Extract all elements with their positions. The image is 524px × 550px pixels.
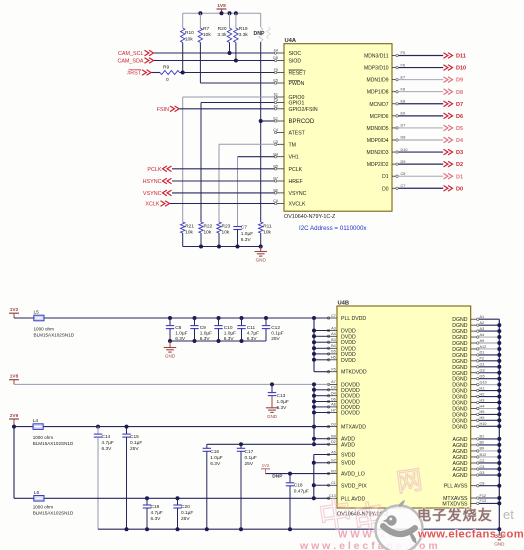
svg-text:4.7µF: 4.7µF xyxy=(102,440,114,446)
svg-text:D6: D6 xyxy=(456,114,463,120)
wire DGND pin A12 to ground bus xyxy=(479,348,499,350)
wire rail2 DOVDD xyxy=(14,383,330,385)
svg-text:B9: B9 xyxy=(480,447,485,451)
svg-text:C1: C1 xyxy=(331,481,336,485)
wire DGND pin A4 to ground bus xyxy=(479,336,499,338)
wire DGND pin H5 to ground bus xyxy=(479,413,499,415)
svg-text:GND: GND xyxy=(165,354,176,359)
svg-text:B3: B3 xyxy=(331,338,336,342)
U4B pin B2 AGND xyxy=(453,441,485,449)
svg-text:B8: B8 xyxy=(331,435,336,439)
svg-text:F5: F5 xyxy=(401,51,405,55)
svg-text:C15: C15 xyxy=(130,434,139,440)
svg-text:SVDD: SVDD xyxy=(341,461,356,467)
wire data bit D8 xyxy=(398,91,443,93)
svg-text:1.0µF: 1.0µF xyxy=(241,231,253,237)
wire data bit D6 xyxy=(398,115,443,117)
watermark pink www rows xyxy=(299,530,438,550)
svg-text:MDP0/D4: MDP0/D4 xyxy=(367,138,389,144)
wire DGND pin H4 to ground bus xyxy=(479,407,499,409)
svg-text:A3: A3 xyxy=(331,326,336,330)
U4B pin B8 AVDD xyxy=(327,435,355,443)
svg-text:2V9: 2V9 xyxy=(10,413,19,419)
svg-text:F5: F5 xyxy=(274,68,278,72)
svg-text:C5: C5 xyxy=(273,140,278,144)
svg-text:4.7µF: 4.7µF xyxy=(247,331,259,337)
resistor R22 10k xyxy=(199,222,213,247)
wire DGND pin H1 to ground bus xyxy=(479,390,499,392)
U4B pin D6 DOVDD xyxy=(327,397,360,405)
svg-text:E5: E5 xyxy=(273,79,278,83)
wire XCLK to XVCLK xyxy=(170,203,275,205)
capacitor C11 4.7µF xyxy=(237,316,259,342)
svg-text:DOVDD: DOVDD xyxy=(341,411,360,417)
svg-text:C8: C8 xyxy=(401,172,406,176)
wire VSYNC xyxy=(172,192,275,194)
svg-text:B1: B1 xyxy=(480,435,485,439)
svg-text:MCN/D7: MCN/D7 xyxy=(369,102,388,108)
junction BPRCOD on DNP column xyxy=(259,119,263,123)
svg-text:C9: C9 xyxy=(200,325,206,331)
svg-text:1V8: 1V8 xyxy=(217,3,226,9)
capacitor C19 4.7uF xyxy=(143,496,163,529)
svg-text:D7: D7 xyxy=(401,124,406,128)
svg-text:4.7µF: 4.7µF xyxy=(151,510,163,516)
svg-text:G5: G5 xyxy=(480,375,485,379)
svg-text:A8: A8 xyxy=(331,403,336,407)
net CAM_SDA label xyxy=(117,58,153,65)
U4B pin F5 MTKDVDD xyxy=(327,368,367,376)
svg-text:D0: D0 xyxy=(456,186,463,192)
svg-text:1000 ohm: 1000 ohm xyxy=(33,505,54,510)
resistor R19 3.3k xyxy=(234,13,249,60)
svg-text:PWDN: PWDN xyxy=(289,81,305,87)
resistor R21 10k xyxy=(181,222,195,247)
U4B pin C9 DOVDD xyxy=(327,386,360,394)
wire AVDD rail to D2 xyxy=(207,443,330,445)
U4B pin H7 DOVDD xyxy=(327,408,360,416)
svg-text:H7: H7 xyxy=(331,408,336,412)
svg-text:GPIO1: GPIO1 xyxy=(289,101,305,107)
svg-text:PLL DVDD: PLL DVDD xyxy=(341,316,366,322)
svg-text:H10: H10 xyxy=(480,422,487,426)
svg-text:AGND: AGND xyxy=(453,473,468,479)
svg-text:B6: B6 xyxy=(273,189,278,193)
svg-text:F4: F4 xyxy=(274,49,278,53)
svg-text:GPIO2/FSIN: GPIO2/FSIN xyxy=(289,107,318,113)
U4B pin A3 DGND xyxy=(452,327,484,335)
watermark text www.elecfans.com xyxy=(417,529,524,541)
U4B pin D4 DOVDD xyxy=(327,392,360,400)
wire DGND pin G1 to ground bus xyxy=(479,366,499,368)
watermark pink outlined chinese characters xyxy=(316,464,424,540)
wire PCLK xyxy=(172,168,275,170)
svg-text:0.1µF: 0.1µF xyxy=(130,440,142,446)
svg-text:A2: A2 xyxy=(480,321,485,325)
svg-text:25V: 25V xyxy=(245,461,254,467)
svg-text:MDP3/D10: MDP3/D10 xyxy=(364,66,389,72)
wire data bit D4 xyxy=(398,139,443,141)
svg-text:B4: B4 xyxy=(331,344,336,348)
capacitor C20 0.1uF xyxy=(173,496,193,529)
ground C13 xyxy=(266,408,278,419)
U4B pin C13 PLL AVDD xyxy=(327,494,365,502)
svg-text:SIOC: SIOC xyxy=(289,51,302,57)
node D9 output connector xyxy=(444,77,464,84)
svg-text:3.3k: 3.3k xyxy=(239,32,249,38)
svg-text:TM: TM xyxy=(289,142,297,148)
U4A pin F5 RESET xyxy=(274,68,307,76)
junction dots bottom ground rail xyxy=(125,527,293,531)
wire DGND pin G5 to ground bus xyxy=(479,378,499,380)
svg-text:GND: GND xyxy=(256,258,267,263)
svg-text:A9: A9 xyxy=(480,339,485,343)
svg-text:C6: C6 xyxy=(273,199,278,203)
svg-text:C11: C11 xyxy=(247,325,256,331)
ferrite bead L4 1000 ohm BLM15AX102SN1D xyxy=(33,418,74,446)
U4A pin C5 TM xyxy=(273,140,296,148)
U4B pin G2 SVDD xyxy=(327,459,355,467)
svg-text:C20: C20 xyxy=(181,504,190,510)
node D0 output connector xyxy=(444,185,464,192)
U4A pin C6 XVCLK xyxy=(273,199,306,207)
svg-text:C13: C13 xyxy=(277,393,286,399)
svg-text:MTXAVDD: MTXAVDD xyxy=(341,425,366,431)
U4B pin D1 DGND xyxy=(452,351,484,359)
wire data bit D3 xyxy=(398,151,443,153)
ground rail1 caps xyxy=(164,341,176,359)
svg-text:C18: C18 xyxy=(294,483,303,489)
wire data bit D10 xyxy=(398,67,443,69)
U4B pin C7 PLL DVDD xyxy=(327,314,366,322)
junction R20 top on rail xyxy=(228,11,232,15)
svg-text:C9: C9 xyxy=(331,386,336,390)
svg-text:C7: C7 xyxy=(331,314,336,318)
wire DGND pin A9 to ground bus xyxy=(479,342,499,344)
U4A pin D5 SIOD xyxy=(273,56,301,64)
junction cap on rail1 gnd xyxy=(168,339,172,343)
svg-text:B5: B5 xyxy=(273,165,278,169)
svg-text:VSYNC: VSYNC xyxy=(289,191,307,197)
U4B pin B12 AGND xyxy=(453,453,487,461)
wire DGND pin F2 to ground bus xyxy=(479,360,499,362)
wire pulldown ground rail top section xyxy=(183,246,261,248)
svg-text:C2: C2 xyxy=(480,459,485,463)
U4A pin F4 SIOC xyxy=(274,49,302,57)
svg-text:0: 0 xyxy=(166,77,169,83)
svg-text:DNP: DNP xyxy=(272,474,283,480)
svg-text:F6: F6 xyxy=(401,63,405,67)
svg-text:D8: D8 xyxy=(456,90,463,96)
svg-text:D3: D3 xyxy=(480,471,485,475)
U4B pin A7 DOVDD xyxy=(327,380,360,388)
wire data bit D0 xyxy=(398,187,443,189)
wire VH1 to C7 column xyxy=(238,157,275,225)
svg-text:R20: R20 xyxy=(218,26,227,32)
svg-text:F13: F13 xyxy=(480,499,487,503)
net #RST label xyxy=(127,69,151,76)
svg-text:R10: R10 xyxy=(185,30,194,36)
svg-text:D1: D1 xyxy=(382,174,389,180)
wire DGND pin H10 to ground bus xyxy=(479,425,499,427)
power symbol 2V9 rail3 xyxy=(9,413,19,427)
svg-text:A1: A1 xyxy=(480,315,485,319)
power rail 1V8 (top pull-up bus wire) xyxy=(183,12,261,14)
net VSYNC label xyxy=(143,190,172,197)
svg-text:BLM15AX102SN1D: BLM15AX102SN1D xyxy=(34,333,75,338)
wire SVDD/PLL AVDD bus vertical xyxy=(314,455,330,499)
wire data bit D5 xyxy=(398,127,443,129)
wire DNP column to BPRCOD pin xyxy=(261,120,275,122)
svg-text:C8: C8 xyxy=(175,325,181,331)
svg-text:R9: R9 xyxy=(163,64,169,70)
svg-text:VSYNC: VSYNC xyxy=(143,191,162,197)
U4B pin G1 DGND xyxy=(452,363,484,371)
svg-text:PCLK: PCLK xyxy=(147,167,161,173)
wire rail3 down to rail4 xyxy=(13,427,15,499)
svg-text:SVDD: SVDD xyxy=(341,453,356,459)
svg-text:6.3V: 6.3V xyxy=(102,446,113,452)
svg-text:10k: 10k xyxy=(185,36,193,42)
svg-text:R19: R19 xyxy=(239,26,248,32)
svg-text:U4B: U4B xyxy=(338,301,350,307)
wire DGND pin H9 to ground bus xyxy=(479,419,499,421)
wire GPIO1 to R22 column xyxy=(201,103,275,223)
U4A pin F6 MDP3/D10 xyxy=(364,63,405,71)
capacitor C9 1.0µF xyxy=(190,316,212,342)
svg-text:D3: D3 xyxy=(331,422,336,426)
svg-text:D1: D1 xyxy=(456,174,463,180)
wire AGND pin B9 to ground bus xyxy=(479,450,499,452)
capacitor C17 0.1uF xyxy=(237,442,257,529)
svg-text:DNP: DNP xyxy=(254,31,265,37)
power symbol 1V2 rail1 xyxy=(9,307,19,318)
svg-text:1.0µF: 1.0µF xyxy=(210,455,222,461)
svg-text:D2: D2 xyxy=(331,440,336,444)
svg-text:MDN0/D5: MDN0/D5 xyxy=(367,126,389,132)
junction ground bus meets bottom rail xyxy=(497,527,501,531)
svg-text:PCLK: PCLK xyxy=(289,167,303,173)
svg-text:XVCLK: XVCLK xyxy=(289,202,307,208)
svg-text:A7: A7 xyxy=(331,380,336,384)
resistor DNP (not populated) and wire to BPRCOD xyxy=(254,13,271,222)
svg-text:B4: B4 xyxy=(273,152,278,156)
svg-text:D10: D10 xyxy=(401,148,408,152)
U4B pin H9 DGND xyxy=(452,416,484,424)
wire HSYNC to HREF xyxy=(172,180,275,182)
svg-text:0.1µF: 0.1µF xyxy=(271,331,283,337)
svg-text:F5: F5 xyxy=(331,368,335,372)
svg-text:GND: GND xyxy=(494,541,505,546)
wire data bit D2 xyxy=(398,163,443,165)
svg-text:BPRCOD: BPRCOD xyxy=(289,119,315,125)
svg-text:MTKDVDD: MTKDVDD xyxy=(341,370,367,376)
U4B pin A5 SVDD xyxy=(327,450,355,458)
resistor R7 10k xyxy=(198,13,211,83)
svg-text:F3: F3 xyxy=(274,98,278,102)
svg-text:D9: D9 xyxy=(456,78,463,84)
svg-text:D9: D9 xyxy=(401,160,406,164)
svg-text:R7: R7 xyxy=(203,26,209,32)
node D8 output connector xyxy=(444,89,464,96)
junction cap on rail1 gnd xyxy=(217,339,221,343)
node D1 output connector xyxy=(444,173,464,180)
svg-text:F2: F2 xyxy=(480,357,484,361)
U4B pin D2 AVDD xyxy=(327,440,355,448)
capacitor C16 1.0uF xyxy=(203,444,223,529)
capacitor C12 0.1µF xyxy=(262,316,284,342)
svg-text:DVDD: DVDD xyxy=(341,358,356,364)
wire DGND pin D1 to ground bus xyxy=(479,354,499,356)
U4A pin D9 MDP2/D2 xyxy=(367,160,406,168)
wire AVDD_LO xyxy=(266,473,330,475)
U4A pin E5 PWDN xyxy=(273,79,304,87)
svg-text:C17: C17 xyxy=(245,449,254,455)
node D6 output connector xyxy=(444,113,464,120)
U4B pin D3 MTXAVDD xyxy=(327,422,366,430)
svg-text:RESET: RESET xyxy=(289,71,307,77)
svg-text:H4: H4 xyxy=(480,404,485,408)
svg-text:GND: GND xyxy=(267,414,278,419)
U4A pin B6 VSYNC xyxy=(273,189,306,197)
wire MTXDVSS pin F13 to ground bus xyxy=(479,502,499,504)
wire DGND pin H3 to ground bus xyxy=(479,402,499,404)
U4B pin A12 DGND xyxy=(452,345,486,353)
svg-text:C19: C19 xyxy=(151,504,160,510)
svg-text:MDN3/D11: MDN3/D11 xyxy=(364,54,389,60)
node D4 output connector xyxy=(444,137,464,144)
resistor R20 3.3k xyxy=(217,13,231,53)
IC U4A OV10640 sensor block A body xyxy=(284,38,392,220)
svg-text:MDP2/D2: MDP2/D2 xyxy=(367,162,389,168)
svg-text:R11: R11 xyxy=(263,223,272,229)
junction MTXAVDD on bus xyxy=(312,425,316,429)
U4A pin F3 GPIO1 xyxy=(274,98,305,106)
svg-text:MDN1/D9: MDN1/D9 xyxy=(367,78,389,84)
U4A pin D7 MDN0/D5 xyxy=(367,124,406,132)
svg-text:6.3V: 6.3V xyxy=(151,516,162,522)
node D10 output connector xyxy=(444,65,467,72)
U4B pin H1 DGND xyxy=(452,386,484,394)
wire DOVDD/AVDD bus vertical xyxy=(313,384,315,444)
resistor R9 0 ohm xyxy=(152,64,180,83)
ground bottom right xyxy=(493,529,505,546)
svg-text:L4: L4 xyxy=(33,418,39,424)
svg-text:R23: R23 xyxy=(222,223,231,229)
junction R7 top on rail xyxy=(198,11,202,15)
svg-text:电子发烧友: 电子发烧友 xyxy=(417,507,493,523)
svg-text:FSIN: FSIN xyxy=(157,107,169,113)
wire data bit D9 xyxy=(398,79,443,81)
svg-text:B7: B7 xyxy=(273,177,278,181)
wire AGND pin C2 to ground bus xyxy=(479,462,499,464)
svg-text:F12: F12 xyxy=(480,494,487,498)
svg-text:10k: 10k xyxy=(203,32,211,38)
U4B pin F13 MTXDVSS xyxy=(442,499,486,507)
capacitor C10 1.0µF xyxy=(214,316,236,342)
svg-text:E8: E8 xyxy=(401,99,406,103)
U4A pin F8 MDP1/D8 xyxy=(367,87,405,95)
U4B pin H5 DGND xyxy=(452,410,484,418)
power symbol 1V8 rail2 xyxy=(9,374,19,385)
junction dots ground bus xyxy=(497,323,501,505)
svg-text:C14: C14 xyxy=(102,434,111,440)
svg-text:1.0µF: 1.0µF xyxy=(200,331,212,337)
wire DGND pin A2 to ground bus xyxy=(479,324,499,326)
resistor R10 10k xyxy=(181,13,195,72)
junction 1V8 stem on rail xyxy=(220,11,224,15)
U4B pin H4 DGND xyxy=(452,404,484,412)
watermark logo circle with bird xyxy=(376,500,423,550)
junction R11 on ground rail xyxy=(259,245,263,249)
svg-text:OV10640-N79Y-1C-Z: OV10640-N79Y-1C-Z xyxy=(284,214,336,220)
svg-text:C4: C4 xyxy=(273,128,278,132)
U4B pin D3 AGND xyxy=(453,471,485,479)
U4A pin C7 D0 xyxy=(382,184,405,192)
svg-text:MDN2/D3: MDN2/D3 xyxy=(367,150,389,156)
U4A pin E1 BPRCOD xyxy=(273,117,314,125)
wire AVDD B8 tap with junction xyxy=(312,437,330,441)
U4B pin B4 DVDD xyxy=(327,344,356,352)
svg-text:D4: D4 xyxy=(456,138,464,144)
U4B pin A8 DOVDD xyxy=(327,403,360,411)
svg-text:G3: G3 xyxy=(480,369,485,373)
svg-text:H5: H5 xyxy=(480,410,485,414)
svg-text:E9: E9 xyxy=(401,112,406,116)
svg-text:L5: L5 xyxy=(34,309,40,315)
wire data bit D11 xyxy=(398,55,443,57)
junction cap on rail1 gnd xyxy=(193,339,197,343)
wire TM to R23 column xyxy=(219,144,275,222)
svg-text:D5: D5 xyxy=(273,56,278,60)
wire DGND pin G10 to ground bus xyxy=(479,384,499,386)
svg-text:1.0µF: 1.0µF xyxy=(277,399,289,405)
svg-text:ATEST: ATEST xyxy=(289,131,306,137)
U4A pin E8 MCN/D7 xyxy=(369,99,405,107)
svg-text:D7: D7 xyxy=(456,102,463,108)
junction R19 top on rail xyxy=(234,11,238,15)
svg-text:0.1µF: 0.1µF xyxy=(181,510,193,516)
svg-text:6.3V: 6.3V xyxy=(210,461,221,467)
svg-text:VH1: VH1 xyxy=(289,155,299,161)
capacitor C13 1.0uF xyxy=(268,382,289,410)
wire CAM_SCL to SIOC xyxy=(154,52,275,54)
U4A pin D8 MDP0/D4 xyxy=(367,136,406,144)
U4A pin D10 MDN2/D3 xyxy=(367,148,408,156)
wire bottom ground rail xyxy=(98,528,499,530)
svg-text:D11: D11 xyxy=(456,54,466,60)
wire DVDD pin taps with junctions xyxy=(312,329,330,362)
svg-text:25V: 25V xyxy=(130,446,139,452)
wire CAM_SDA to SIOD xyxy=(154,60,275,62)
svg-text:R21: R21 xyxy=(185,223,194,229)
U4A pin E9 MCP/D6 xyxy=(370,112,406,120)
svg-text:D6: D6 xyxy=(331,397,336,401)
U4B pin G10 DGND xyxy=(452,380,486,388)
U4A pin F1 GPIO0 xyxy=(274,93,305,101)
node D5 output connector xyxy=(444,125,464,132)
svg-text:D1: D1 xyxy=(480,351,485,355)
U4B pin C8 PLL AVSS xyxy=(444,482,485,490)
junction rail3 feed xyxy=(12,425,16,429)
U4B pin B1 AGND xyxy=(453,435,485,443)
wire data bit D1 xyxy=(398,175,443,177)
svg-text:B12: B12 xyxy=(480,453,487,457)
wire DGND pin A3 to ground bus xyxy=(479,330,499,332)
svg-text:A4: A4 xyxy=(480,333,485,337)
wire AGND pin D3 to ground bus xyxy=(479,474,499,476)
U4B pin H10 DGND xyxy=(452,422,486,430)
